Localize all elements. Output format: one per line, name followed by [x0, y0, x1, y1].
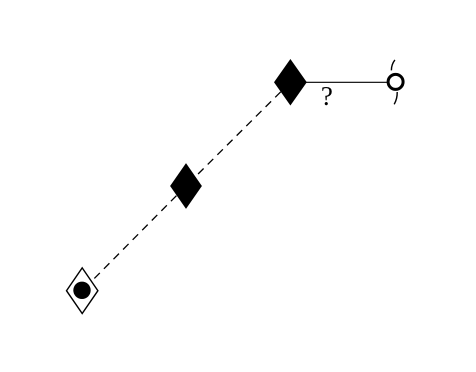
svg-text:?: ? — [321, 81, 333, 111]
